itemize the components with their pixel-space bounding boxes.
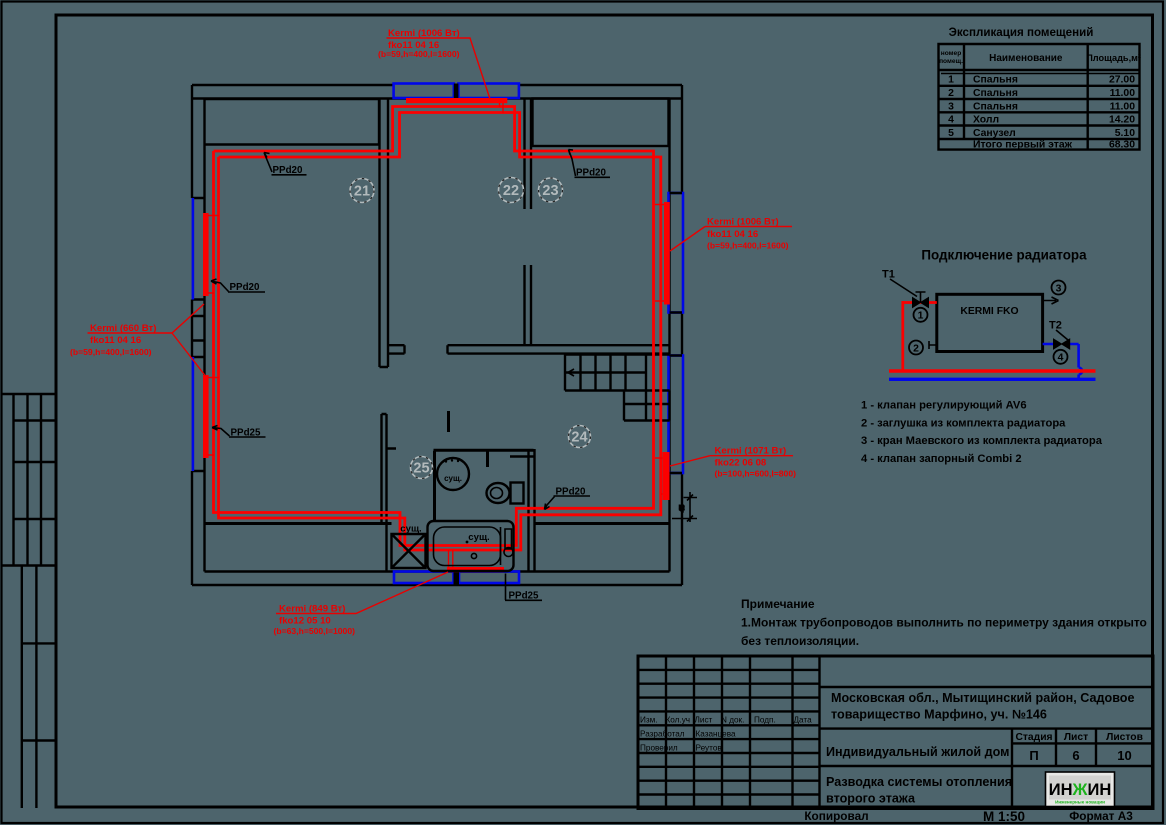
svg-text:45: 45	[679, 504, 686, 512]
svg-text:25: 25	[413, 461, 429, 477]
stadia header	[1015, 732, 1142, 763]
stairs lower grid	[624, 391, 670, 421]
svg-text:Kermi (849 Вт): Kermi (849 Вт)	[279, 603, 345, 614]
svg-text:T1: T1	[882, 269, 895, 281]
svg-text:Kermi (1006 Вт): Kermi (1006 Вт)	[388, 28, 460, 39]
heating return ring inner pipe	[219, 113, 661, 551]
top bay window divider	[454, 84, 459, 99]
room circle 24	[569, 426, 591, 448]
svg-text:Наименование: Наименование	[989, 53, 1063, 64]
svg-text:11.00: 11.00	[1110, 88, 1136, 99]
svg-text:Спальня: Спальня	[973, 88, 1018, 99]
svg-text:23: 23	[542, 183, 558, 199]
svg-text:PPd20: PPd20	[273, 165, 304, 176]
radiator right fko22 stubs	[655, 458, 663, 494]
svg-text:1.Монтаж трубопроводов выполни: 1.Монтаж трубопроводов выполнить по пери…	[741, 616, 1147, 630]
svg-text:Изм.: Изм.	[640, 716, 658, 725]
svg-text:22: 22	[503, 183, 519, 199]
svg-text:Формат А3: Формат А3	[1069, 809, 1133, 823]
bottom window blue left	[394, 572, 454, 584]
bath drain	[471, 553, 476, 558]
supply pipe into valve 1	[903, 301, 937, 371]
title block right section lines	[820, 687, 1154, 809]
svg-text:fko11 04 16: fko11 04 16	[90, 335, 141, 346]
svg-text:2 - заглушка из комплекта ради: 2 - заглушка из комплекта радиатора	[861, 417, 1066, 429]
right wall window 1 blue	[669, 193, 684, 313]
radiator top bay	[406, 98, 507, 103]
svg-text:1 - клапан регулирующий AV6: 1 - клапан регулирующий AV6	[861, 400, 1027, 412]
exterior wall top inner line	[192, 97, 682, 99]
svg-text:PPd20: PPd20	[576, 168, 607, 179]
room circle 22	[499, 178, 524, 203]
room circle 23	[539, 178, 563, 202]
svg-text:Индивидуальный жилой дом: Индивидуальный жилой дом	[826, 745, 1010, 759]
svg-text:Спальня: Спальня	[973, 75, 1018, 86]
svg-text:М 1:50: М 1:50	[983, 809, 1025, 824]
svg-text:2: 2	[948, 88, 954, 99]
exterior wall right inner line	[668, 99, 670, 572]
toilet tank	[511, 483, 524, 504]
plug symbol 2	[929, 341, 937, 349]
room circle 25	[411, 457, 433, 479]
under-roof strip line left	[205, 522, 392, 525]
radiator right fko11	[664, 202, 670, 305]
hall door jamb	[447, 411, 450, 432]
svg-text:6: 6	[1072, 748, 1079, 763]
PPd20 label top right	[569, 150, 576, 177]
svg-text:П: П	[1029, 748, 1038, 763]
bath inner	[434, 527, 501, 566]
svg-text:Стадия: Стадия	[1015, 732, 1052, 743]
sink	[437, 458, 469, 490]
heating supply ring outer pipe	[214, 107, 654, 546]
svg-text:Разводка системы отопления: Разводка системы отопления	[826, 775, 1012, 789]
toilet bowl	[487, 483, 510, 503]
svg-text:3 - кран Маевского из комплект: 3 - кран Маевского из комплекта радиатор…	[861, 435, 1103, 447]
svg-text:Казанцева: Казанцева	[696, 730, 736, 739]
svg-text:4: 4	[1058, 353, 1064, 364]
radiator top bay stubs	[500, 103, 504, 113]
svg-text:Спальня: Спальня	[973, 101, 1018, 112]
exterior wall top outer line	[192, 84, 682, 86]
stairs direction arrow	[568, 369, 580, 376]
svg-text:сущ.: сущ.	[468, 532, 489, 543]
partition 21|22 door stub	[388, 345, 405, 353]
svg-text:товарищество Марфино, уч. №146: товарищество Марфино, уч. №146	[831, 708, 1047, 722]
radiator right fko11 stubs	[655, 205, 664, 302]
exterior wall right outer line	[681, 85, 683, 585]
room schedule table lines	[939, 44, 1140, 150]
bottom margin texts	[804, 809, 1133, 824]
svg-text:сущ.: сущ.	[444, 474, 462, 483]
svg-text:68.30: 68.30	[1109, 140, 1135, 151]
svg-text:PPd25: PPd25	[509, 591, 540, 602]
svg-text:fko11 04 16: fko11 04 16	[707, 229, 758, 240]
svg-text:PPd20: PPd20	[556, 486, 587, 497]
svg-text:10: 10	[1117, 748, 1131, 763]
radiator left 1 stubs	[208, 216, 219, 294]
stamp header row text	[640, 716, 812, 753]
callout 4	[1054, 350, 1068, 364]
dimension marker hall	[672, 492, 697, 522]
radiator right fko22	[663, 452, 670, 500]
svg-text:Копировал: Копировал	[804, 809, 868, 823]
partition 21|22 lower	[382, 414, 397, 524]
room schedule rows	[948, 75, 1135, 151]
svg-text:второго этажа: второго этажа	[826, 792, 916, 806]
svg-text:(b=59,h=400,l=1600): (b=59,h=400,l=1600)	[378, 49, 460, 59]
svg-text:5.10: 5.10	[1115, 128, 1135, 139]
title block left grid horizontals	[638, 670, 820, 795]
laundry box	[392, 534, 426, 568]
svg-text:Разработал: Разработал	[640, 730, 685, 739]
PPd20 label hall	[545, 497, 555, 510]
logo box	[1046, 772, 1115, 807]
title block left grid verticals	[666, 656, 820, 809]
partition 22|23	[525, 99, 532, 347]
svg-text:Холл: Холл	[973, 115, 999, 126]
left margin lower table	[22, 566, 56, 809]
radiator left 1	[203, 213, 209, 296]
svg-text:ИНЖИН: ИНЖИН	[1049, 781, 1111, 799]
bottom window blue right	[459, 572, 519, 584]
window W1 left blue	[192, 198, 195, 300]
closet room 21	[205, 99, 380, 145]
svg-text:1: 1	[948, 75, 954, 86]
svg-text:3: 3	[1056, 283, 1062, 294]
svg-text:(b=59,h=400,l=1600): (b=59,h=400,l=1600)	[707, 241, 789, 251]
partition 21|22 upper	[380, 99, 389, 368]
left margin upper table	[2, 394, 56, 566]
svg-text:Экспликация помещений: Экспликация помещений	[949, 26, 1094, 39]
top bay window blue left	[394, 84, 454, 99]
svg-text:сущ.: сущ.	[400, 524, 421, 535]
svg-text:1: 1	[918, 311, 924, 322]
room circle 21	[350, 179, 374, 203]
callout 3	[1052, 281, 1066, 295]
svg-text:Площадь,м²: Площадь,м²	[1086, 53, 1141, 63]
svg-text:fko22 06 08: fko22 06 08	[715, 458, 767, 469]
svg-text:(b=59,h=400,l=1600): (b=59,h=400,l=1600)	[70, 347, 152, 357]
return pipe from radiator	[1043, 344, 1079, 379]
top bay window blue right	[458, 84, 519, 99]
PPd25 label bottom	[505, 574, 542, 601]
svg-text:Листов: Листов	[1106, 732, 1143, 743]
svg-text:24: 24	[571, 430, 587, 446]
note text	[741, 597, 1147, 648]
svg-text:4 - клапан запорный Combi 2: 4 - клапан запорный Combi 2	[861, 453, 1022, 465]
svg-text:Лист: Лист	[1064, 732, 1088, 743]
PPd20 label top left	[264, 153, 272, 173]
right wall window 2 blue	[669, 356, 684, 474]
air vent 3 arrow	[1043, 297, 1059, 304]
svg-text:Примечание: Примечание	[741, 597, 815, 611]
PPd20 label left wall	[211, 279, 229, 292]
svg-text:Подп.: Подп.	[754, 716, 776, 725]
svg-text:(b=63,h=500,l=1000): (b=63,h=500,l=1000)	[274, 626, 356, 636]
exterior wall bottom inner line	[205, 570, 670, 572]
svg-text:помещ.: помещ.	[939, 58, 963, 65]
svg-text:KERMI FKO: KERMI FKO	[960, 306, 1018, 317]
exterior wall left inner line	[203, 99, 205, 572]
svg-text:T2: T2	[1049, 320, 1062, 332]
radiator left 2	[203, 375, 209, 458]
radiator left 2 stubs	[208, 378, 219, 456]
callout 2	[909, 341, 923, 355]
svg-text:14.20: 14.20	[1109, 115, 1135, 126]
svg-text:Лист: Лист	[695, 716, 713, 725]
supply main line	[889, 369, 1096, 372]
svg-text:Московская обл., Мытищинский р: Московская обл., Мытищинский район, Садо…	[831, 691, 1134, 705]
corridor south wall	[448, 345, 670, 353]
svg-text:Проверил: Проверил	[640, 743, 678, 752]
exterior wall left outer line	[191, 85, 193, 585]
svg-text:PPd20: PPd20	[230, 282, 261, 293]
bottom window divider	[454, 572, 460, 586]
T1 leader	[890, 279, 917, 297]
left wall pier caps	[192, 198, 205, 471]
svg-text:N док.: N док.	[721, 716, 744, 725]
valve 1 stem	[916, 292, 926, 303]
svg-text:21: 21	[354, 184, 370, 200]
return pipe jump arc	[1079, 368, 1083, 375]
laundry west wall	[385, 524, 387, 572]
bathroom west wall	[433, 451, 436, 522]
svg-text:Подключение радиатора: Подключение радиатора	[921, 248, 1087, 263]
svg-text:без теплоизоляции.: без теплоизоляции.	[741, 634, 859, 648]
svg-text:Инженерные новации: Инженерные новации	[1055, 800, 1105, 805]
title block outer box	[638, 656, 1153, 809]
bath outer	[428, 521, 514, 571]
PPd25 label left lower	[212, 426, 230, 437]
bathroom door jamb	[486, 451, 489, 467]
stairs upper band	[565, 355, 670, 391]
svg-text:11.00: 11.00	[1110, 101, 1136, 112]
svg-text:27.00: 27.00	[1109, 75, 1135, 86]
svg-text:Kermi (1006 Вт): Kermi (1006 Вт)	[707, 216, 779, 227]
svg-text:5: 5	[948, 128, 954, 139]
bath fittings	[501, 527, 514, 565]
svg-text:Дата: Дата	[794, 716, 813, 725]
svg-text:3: 3	[948, 101, 954, 112]
svg-text:fko12 05 10: fko12 05 10	[279, 615, 331, 626]
bathroom north wall	[434, 449, 534, 452]
closet rooms 22-23	[533, 99, 669, 147]
T2 leader	[1056, 330, 1068, 340]
svg-text:4: 4	[948, 115, 954, 126]
radiator bath stubs	[449, 550, 453, 567]
under-roof strip line right	[535, 522, 670, 525]
window W2 left blue	[192, 357, 195, 471]
legend text	[861, 400, 1103, 465]
valve 1 body	[913, 298, 929, 308]
valve 4 body	[1054, 339, 1070, 349]
svg-text:номер: номер	[941, 50, 962, 57]
svg-text:Итого первый этаж: Итого первый этаж	[973, 140, 1073, 151]
toilet inner	[491, 488, 503, 499]
bathroom north wall inner line	[510, 455, 534, 457]
svg-text:Реутов: Реутов	[696, 743, 722, 752]
bathroom east wall	[529, 449, 535, 572]
svg-text:Кол.уч: Кол.уч	[666, 716, 691, 725]
radiator bath	[447, 567, 504, 572]
return main line	[889, 378, 1096, 381]
radiator body KERMI FKO	[937, 294, 1043, 351]
callout 1	[914, 308, 928, 322]
svg-text:PPd25: PPd25	[231, 427, 262, 438]
exterior wall bottom outer line	[192, 584, 682, 586]
svg-text:(b=100,h=600,l=800): (b=100,h=600,l=800)	[715, 469, 797, 479]
svg-text:Санузел: Санузел	[973, 128, 1016, 139]
right wall window caps	[670, 193, 683, 473]
svg-text:2: 2	[913, 343, 919, 354]
